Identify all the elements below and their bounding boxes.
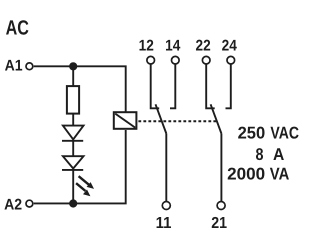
relay coil K1 bbox=[114, 112, 137, 129]
junction dot A1 node bbox=[69, 62, 77, 70]
terminal 14 bbox=[172, 56, 180, 64]
LED arrow 2 bbox=[76, 183, 90, 196]
svg-text:8: 8 bbox=[256, 145, 264, 164]
resistor R1 bbox=[67, 86, 79, 114]
svg-text:24: 24 bbox=[222, 38, 238, 55]
wire 14 NO fixed contact bbox=[170, 64, 175, 108]
junction dot A2 node bbox=[69, 199, 77, 207]
LED D2 cathode bar bbox=[62, 169, 83, 171]
wire lever1 to terminal 11 bbox=[165, 134, 167, 202]
terminal 22 bbox=[202, 56, 210, 64]
svg-text:14: 14 bbox=[165, 38, 181, 55]
wire resistor to diode bbox=[72, 114, 74, 126]
svg-text:2000: 2000 bbox=[227, 164, 265, 183]
svg-text:11: 11 bbox=[156, 215, 172, 232]
terminal A1 bbox=[26, 63, 33, 70]
terminal 11 bbox=[162, 202, 170, 210]
LED D2 triangle bbox=[63, 156, 84, 168]
svg-text:VAC: VAC bbox=[270, 123, 299, 142]
terminal 24 bbox=[227, 56, 235, 64]
diode D1 triangle bbox=[63, 126, 84, 140]
wire 22 NC fixed contact bbox=[206, 64, 215, 108]
svg-text:21: 21 bbox=[211, 215, 227, 232]
wire D1 to D2 bbox=[72, 141, 74, 157]
switch lever pole 2 bbox=[211, 104, 222, 133]
svg-text:A: A bbox=[273, 145, 284, 164]
svg-text:A2: A2 bbox=[4, 197, 22, 214]
wire A1 to coil bbox=[34, 66, 126, 112]
wire 24 NO fixed contact bbox=[226, 64, 231, 108]
mechanical link dotted line bbox=[138, 120, 216, 122]
terminal A2 bbox=[26, 200, 33, 207]
wire D2 to A2 node bbox=[72, 170, 74, 204]
svg-text:12: 12 bbox=[139, 38, 154, 55]
wire lever2 to terminal 21 bbox=[220, 134, 222, 202]
terminal 12 bbox=[147, 56, 155, 64]
svg-text:AC: AC bbox=[6, 16, 29, 39]
switch lever pole 1 bbox=[156, 104, 167, 133]
LED arrow 1 bbox=[79, 176, 94, 189]
wire 12 NC fixed contact bbox=[151, 64, 160, 108]
diode D1 cathode bar bbox=[62, 140, 83, 142]
svg-text:250: 250 bbox=[238, 123, 266, 142]
wire A2 to coil bbox=[34, 130, 126, 203]
terminal 21 bbox=[217, 202, 225, 210]
svg-text:A1: A1 bbox=[5, 58, 23, 75]
svg-text:22: 22 bbox=[196, 38, 211, 55]
svg-text:VA: VA bbox=[270, 164, 290, 183]
wire A1 node to resistor bbox=[72, 66, 74, 85]
